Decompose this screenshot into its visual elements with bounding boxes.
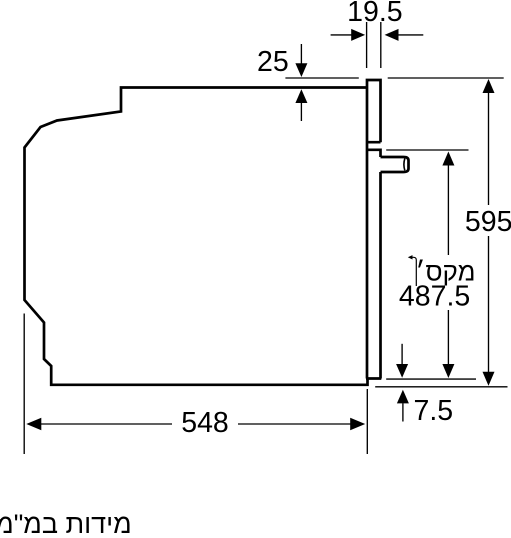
dimension 595 vertical xyxy=(483,79,495,386)
top reference line right (595 dim) xyxy=(388,77,504,79)
extension line 19.5 left xyxy=(366,22,368,68)
dimension 19.5 arrows xyxy=(331,29,424,41)
svg-text:548: 548 xyxy=(181,407,229,439)
dimension 25 arrows xyxy=(295,44,307,121)
fascia front frame xyxy=(366,80,381,379)
extension line 548 left xyxy=(23,314,25,455)
bottom reference line 1 (487.5) xyxy=(386,378,476,380)
knob inner arc xyxy=(403,159,406,171)
svg-text:595: 595 xyxy=(465,206,511,238)
bottom reference line 2 (595) xyxy=(375,386,507,388)
svg-text:7.5: 7.5 xyxy=(414,395,454,427)
knob xyxy=(381,157,409,172)
dimension 487.5 vertical xyxy=(442,152,454,379)
dimension 548 horizontal xyxy=(26,418,365,431)
extension line 548 right xyxy=(366,389,368,454)
dimension 7.5 arrows xyxy=(396,344,409,422)
svg-text:19.5: 19.5 xyxy=(347,0,402,28)
oven body outline xyxy=(25,88,368,385)
max arrow mark xyxy=(411,257,416,286)
svg-text:מידות במ"מ: מידות במ"מ xyxy=(0,509,132,538)
extension line 19.5 right xyxy=(380,22,382,68)
extension line 487.5 top xyxy=(386,149,468,151)
top reference line left (25 dim) xyxy=(285,77,358,79)
svg-text:25: 25 xyxy=(257,46,289,78)
svg-text:487.5: 487.5 xyxy=(399,280,470,312)
